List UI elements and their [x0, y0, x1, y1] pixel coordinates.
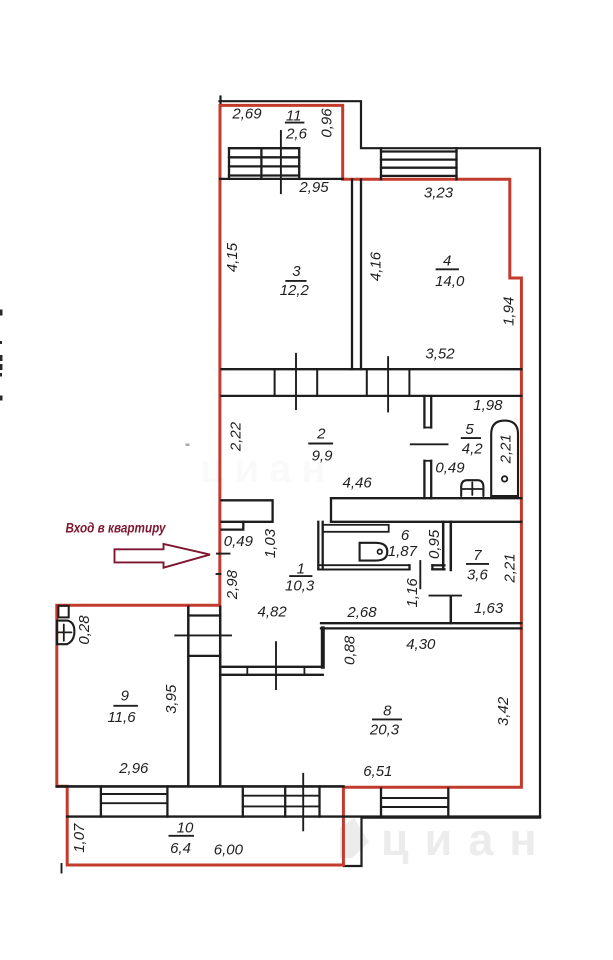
svg-text:4,2: 4,2 — [462, 441, 484, 458]
svg-text:10,3: 10,3 — [285, 578, 315, 595]
svg-text:6: 6 — [401, 527, 410, 544]
svg-text:2,22: 2,22 — [228, 421, 245, 452]
svg-text:0,49: 0,49 — [435, 460, 465, 477]
svg-text:3: 3 — [292, 263, 301, 280]
svg-text:10: 10 — [177, 820, 194, 837]
svg-text:9,9: 9,9 — [312, 448, 334, 465]
svg-text:8: 8 — [383, 703, 392, 720]
svg-text:3,95: 3,95 — [163, 684, 180, 714]
svg-text:6,00: 6,00 — [214, 841, 244, 858]
svg-text:Вход в квартиру: Вход в квартиру — [66, 519, 167, 535]
svg-text:4,30: 4,30 — [406, 636, 436, 653]
svg-text:1,98: 1,98 — [473, 397, 503, 414]
svg-text:1,07: 1,07 — [71, 823, 88, 853]
svg-text:4,15: 4,15 — [224, 242, 241, 272]
svg-text:1,94: 1,94 — [501, 297, 518, 326]
svg-text:5: 5 — [465, 421, 474, 438]
svg-text:6,4: 6,4 — [170, 840, 191, 857]
svg-text:3,52: 3,52 — [425, 345, 455, 362]
svg-text:2,21: 2,21 — [501, 553, 518, 583]
svg-text:0,28: 0,28 — [76, 615, 93, 645]
svg-text:4,82: 4,82 — [257, 603, 287, 620]
svg-text:1,03: 1,03 — [262, 528, 279, 558]
svg-text:4: 4 — [443, 252, 451, 269]
svg-text:2,98: 2,98 — [224, 569, 241, 600]
svg-text:2,95: 2,95 — [298, 179, 329, 196]
svg-text:4,16: 4,16 — [367, 251, 384, 281]
svg-text:2,96: 2,96 — [118, 760, 149, 777]
svg-text:3,6: 3,6 — [467, 567, 489, 584]
svg-text:3,23: 3,23 — [424, 185, 454, 202]
svg-text:2,6: 2,6 — [285, 126, 308, 143]
svg-text:1: 1 — [297, 561, 305, 578]
svg-text:0,96: 0,96 — [318, 108, 335, 138]
svg-text:0,95: 0,95 — [426, 529, 443, 559]
svg-text:2: 2 — [316, 426, 326, 443]
svg-text:6,51: 6,51 — [363, 763, 392, 780]
svg-text:7: 7 — [473, 547, 482, 564]
svg-text:11,6: 11,6 — [107, 709, 136, 726]
svg-text:1,87: 1,87 — [388, 543, 418, 560]
svg-text:1,16: 1,16 — [404, 578, 421, 608]
svg-text:0,88: 0,88 — [342, 635, 359, 665]
svg-text:4,46: 4,46 — [342, 475, 372, 492]
svg-text:1,63: 1,63 — [474, 600, 504, 617]
svg-text:3,42: 3,42 — [495, 696, 512, 726]
svg-text:20,3: 20,3 — [369, 721, 400, 738]
svg-text:9: 9 — [121, 688, 130, 705]
svg-text:2,21: 2,21 — [497, 434, 514, 464]
svg-text:2,68: 2,68 — [346, 604, 377, 621]
svg-text:0,49: 0,49 — [224, 533, 254, 550]
svg-text:12,2: 12,2 — [280, 282, 310, 299]
svg-text:2,69: 2,69 — [231, 105, 262, 122]
svg-text:циан: циан — [381, 814, 553, 865]
svg-text:14,0: 14,0 — [435, 273, 465, 290]
